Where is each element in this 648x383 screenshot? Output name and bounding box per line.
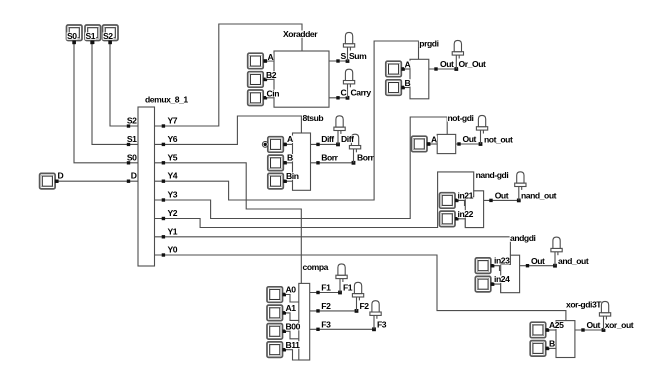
label nand_out <box>521 191 557 201</box>
wire Y3 to not-gdi <box>155 117 448 219</box>
svg-text:Y5: Y5 <box>168 152 178 162</box>
wire Bin to 8tsub <box>285 180 293 182</box>
switch S1 <box>85 25 101 44</box>
switch A1 <box>267 305 286 321</box>
label Carry <box>350 88 371 98</box>
node Sum <box>346 59 350 63</box>
svg-text:Y6: Y6 <box>168 134 178 144</box>
label Y7 <box>167 116 178 126</box>
label Sum <box>349 51 367 61</box>
wire Out to xor_out <box>575 329 604 331</box>
switch in24 <box>475 276 494 292</box>
wire A to prgdi <box>403 68 410 70</box>
pin F3 <box>316 328 319 331</box>
svg-text:A25: A25 <box>549 320 564 330</box>
label S0 <box>67 31 78 41</box>
wire Y7 to Xoradder <box>155 24 303 126</box>
pin in21 <box>455 199 458 202</box>
label S2 <box>103 31 114 41</box>
LED xor_out <box>599 301 610 330</box>
label F1 pin <box>321 283 331 293</box>
svg-text:Out: Out <box>531 256 545 266</box>
pin demux Y3 <box>162 198 165 201</box>
pin S0 <box>72 41 75 44</box>
svg-text:Out: Out <box>463 134 477 144</box>
label F2 node <box>359 301 369 311</box>
svg-text:A: A <box>287 134 293 144</box>
pin in24 <box>491 282 494 285</box>
svg-text:demux_8_1: demux_8_1 <box>145 95 188 105</box>
switch A (Xoradder) <box>248 53 267 68</box>
svg-text:Y1: Y1 <box>168 226 178 236</box>
svg-text:Or_Out: Or_Out <box>459 59 486 69</box>
wire Borr output <box>311 162 354 164</box>
switch B (8tsub) <box>268 155 287 171</box>
pin Bin 8tsub <box>283 180 286 183</box>
probe marker on A (8tsub) <box>262 142 268 148</box>
pin B00 <box>283 330 286 333</box>
wire in22 to nand-gdi <box>457 219 466 228</box>
label demux S1 <box>126 134 137 144</box>
label D switch <box>57 171 64 181</box>
svg-text:and_out: and_out <box>558 256 589 266</box>
switch D <box>40 173 59 189</box>
label Out prgdi <box>440 59 454 69</box>
switch Bin (8tsub) <box>268 173 287 189</box>
pin A1 <box>283 311 286 314</box>
node Borr <box>352 161 356 165</box>
label C <box>340 88 347 98</box>
wire Out to Or_Out <box>429 68 457 70</box>
wire S2 to demux <box>110 43 138 127</box>
label compa <box>302 262 329 272</box>
LED not_out <box>476 115 487 144</box>
pin demux Y1 <box>162 235 165 238</box>
switch A (8tsub) <box>268 137 287 153</box>
wire D to demux <box>57 180 139 182</box>
svg-text:D: D <box>58 171 64 181</box>
svg-text:F2: F2 <box>321 301 331 311</box>
label A0 <box>285 285 296 295</box>
label A 8tsub <box>287 134 294 144</box>
svg-text:F3: F3 <box>377 319 387 329</box>
label demux S2 <box>126 116 137 126</box>
label Y6 <box>167 134 178 144</box>
label Borr pin <box>321 152 339 162</box>
switch S0 <box>67 25 83 44</box>
switch A (prgdi) <box>386 61 405 76</box>
wire S output <box>329 60 348 62</box>
wire in21 to nand-gdi <box>457 200 466 205</box>
pin B2 Xoradder <box>264 78 267 81</box>
wire S0 to demux <box>74 43 138 163</box>
pin A not-gdi <box>427 142 430 145</box>
label B 8tsub <box>287 153 294 163</box>
svg-text:nand-gdi: nand-gdi <box>476 170 509 180</box>
svg-text:Y3: Y3 <box>168 190 178 200</box>
wire A to 8tsub <box>285 143 293 145</box>
label demux_8_1 <box>145 95 189 105</box>
pin A Xoradder <box>264 59 267 62</box>
svg-text:A0: A0 <box>286 285 297 295</box>
pin C <box>336 96 339 99</box>
label F1 node <box>343 283 353 293</box>
svg-text:S2: S2 <box>103 31 113 41</box>
svg-text:xor-gdi3T: xor-gdi3T <box>566 299 602 309</box>
LED F1 <box>336 264 347 293</box>
wire Y5 to compa <box>155 163 302 284</box>
label A not-gdi <box>431 134 438 144</box>
wire Diff output <box>311 143 339 145</box>
label Out nand <box>494 191 508 201</box>
pin S1 <box>90 41 93 44</box>
node not_out <box>479 142 483 146</box>
label S <box>340 51 347 61</box>
svg-text:A1: A1 <box>286 303 297 313</box>
wire A25 to xor-gdi3T <box>547 329 556 331</box>
svg-text:B2: B2 <box>266 70 277 80</box>
LED F3 <box>370 301 381 330</box>
svg-text:not_out: not_out <box>484 134 513 144</box>
switch in22 <box>440 211 459 227</box>
svg-text:xor_out: xor_out <box>605 320 634 330</box>
pin demux Y5 <box>162 161 165 164</box>
switch Cin (Xoradder) <box>248 90 267 106</box>
pin B prgdi <box>401 86 404 89</box>
compa block U9 <box>299 283 310 360</box>
nand-gdi block U6 <box>465 191 483 228</box>
svg-text:Y4: Y4 <box>168 171 178 181</box>
pin A25 <box>546 328 549 331</box>
wire B to prgdi <box>403 87 410 89</box>
svg-text:S0: S0 <box>67 31 77 41</box>
label nand-gdi <box>475 170 508 180</box>
label Out xor <box>586 320 600 330</box>
svg-text:S0: S0 <box>127 152 137 162</box>
LED Sum <box>343 32 354 61</box>
label A Xoradder <box>267 52 274 62</box>
label andgdi <box>510 233 536 243</box>
label Or_Out <box>458 59 486 69</box>
wire B2 to Xoradder <box>265 78 274 80</box>
pin Out xor <box>581 328 584 331</box>
pin demux Y0 <box>162 253 165 256</box>
label B2 Xoradder <box>266 70 277 80</box>
svg-text:Y0: Y0 <box>168 245 178 255</box>
node F2 <box>355 309 359 313</box>
pin demux Y4 <box>162 180 165 183</box>
pin A0 <box>283 293 286 296</box>
label xor_out <box>604 320 633 330</box>
svg-text:in21: in21 <box>458 190 474 200</box>
svg-text:B00: B00 <box>286 322 301 332</box>
pin demux S2 <box>127 124 130 127</box>
wire Y6 to 8tsub <box>155 116 302 144</box>
label Diff node <box>341 134 355 144</box>
node Diff <box>336 143 340 147</box>
svg-text:S1: S1 <box>127 134 137 144</box>
wire Out to and_out <box>520 265 555 267</box>
label Cin Xoradder <box>266 88 279 98</box>
svg-text:Bin: Bin <box>286 171 299 181</box>
switch A (not-gdi) <box>412 136 431 152</box>
svg-text:Borr: Borr <box>321 152 338 162</box>
label F3 pin <box>321 319 331 329</box>
switch in23 <box>475 258 494 274</box>
LED and_out <box>551 237 562 266</box>
LED Borr <box>349 134 360 163</box>
node Or_Out <box>454 67 458 71</box>
LED Or_Out <box>452 40 463 69</box>
svg-text:B: B <box>549 339 555 349</box>
pin Cin Xoradder <box>264 96 267 99</box>
svg-text:Xoradder: Xoradder <box>283 29 318 39</box>
LED Carry <box>343 69 354 98</box>
pin Out andgdi <box>526 264 529 267</box>
switch B11 <box>267 342 286 358</box>
node and_out <box>553 264 557 268</box>
not-gdi block U5 <box>437 134 456 153</box>
label Diff pin <box>321 134 335 144</box>
svg-text:B11: B11 <box>286 340 301 350</box>
switch S2 <box>103 25 119 44</box>
svg-text:B: B <box>287 153 293 163</box>
svg-text:S1: S1 <box>86 31 96 41</box>
svg-text:in23: in23 <box>494 256 510 266</box>
svg-text:andgdi: andgdi <box>510 233 536 243</box>
svg-text:in22: in22 <box>458 209 474 219</box>
label A prgdi <box>404 59 411 69</box>
pin in23 <box>491 264 494 267</box>
prgdi block U4 <box>410 59 429 99</box>
svg-text:S2: S2 <box>127 116 137 126</box>
svg-text:Carry: Carry <box>351 88 372 98</box>
switch in21 <box>440 193 459 209</box>
wire A to not-gdi <box>429 143 438 145</box>
wire Out to nand_out <box>484 199 519 201</box>
node F3 <box>372 327 376 331</box>
label F2 pin <box>321 301 331 311</box>
label prgdi <box>419 38 439 48</box>
pin B xor <box>546 347 549 350</box>
svg-text:A: A <box>431 134 437 144</box>
label 8tsub <box>302 113 323 123</box>
pin Out not-gdi <box>457 142 460 145</box>
pin A 8tsub <box>283 143 286 146</box>
label B xor <box>549 339 556 349</box>
wire B00 to compa <box>284 331 299 339</box>
wire Y1 to andgdi <box>155 237 511 255</box>
wire A to Xoradder <box>265 60 274 62</box>
wire F1 output <box>310 292 340 294</box>
svg-text:Sum: Sum <box>349 51 367 61</box>
pin B11 <box>283 348 286 351</box>
demux_8_1 block U1 <box>138 107 155 266</box>
andgdi block U7 <box>501 255 520 293</box>
label F3 node <box>377 319 387 329</box>
switch B2 (Xoradder) <box>248 72 267 88</box>
svg-text:C: C <box>341 88 347 98</box>
pin D switch <box>55 180 58 183</box>
label and_out <box>558 256 589 266</box>
wire Y0 to xor-gdi3T <box>155 255 566 321</box>
label in22 <box>457 209 473 219</box>
svg-text:B: B <box>405 78 411 88</box>
wire C output <box>329 97 348 99</box>
wire B to 8tsub <box>285 162 293 164</box>
pin Borr <box>316 161 319 164</box>
wire Y2 to nand-gdi <box>155 172 474 228</box>
switch A25 <box>530 322 549 338</box>
label xor-gdi3T <box>566 299 603 309</box>
pin F1 <box>316 291 319 294</box>
LED nand_out <box>515 172 526 201</box>
LED Diff <box>334 116 345 145</box>
label A25 <box>549 320 564 330</box>
svg-text:Out: Out <box>587 320 601 330</box>
svg-text:in24: in24 <box>494 274 510 284</box>
pin S <box>336 59 339 62</box>
svg-text:A: A <box>405 59 411 69</box>
pin demux Y2 <box>162 217 165 220</box>
label not_out <box>484 134 513 144</box>
pin F2 <box>316 309 319 312</box>
label Y5 <box>167 152 178 162</box>
label not-gdi <box>447 113 473 123</box>
xor-gdi3T block U8 <box>556 321 575 358</box>
label demux D <box>130 171 137 181</box>
svg-text:prgdi: prgdi <box>419 38 438 48</box>
label Bin 8tsub <box>286 171 299 181</box>
svg-text:compa: compa <box>303 262 329 272</box>
node xor_out <box>602 328 606 332</box>
svg-text:F2: F2 <box>360 301 370 311</box>
wire F2 output <box>310 310 357 312</box>
wire Out to not_out <box>456 143 481 145</box>
pin B 8tsub <box>283 161 286 164</box>
pin demux Y6 <box>162 143 165 146</box>
wire S1 to demux <box>92 43 138 145</box>
svg-text:Borr: Borr <box>357 152 374 162</box>
wire in24 to andgdi <box>493 284 501 293</box>
label Out not-gdi <box>462 134 476 144</box>
Xoradder block U2 <box>274 51 329 107</box>
label Borr node <box>357 152 375 162</box>
svg-text:not-gdi: not-gdi <box>448 113 474 123</box>
svg-text:Diff: Diff <box>321 134 334 144</box>
label S1 <box>85 31 96 41</box>
wire F3 output <box>310 328 374 330</box>
svg-text:F3: F3 <box>321 319 331 329</box>
svg-text:A: A <box>268 52 274 62</box>
switch A0 <box>267 287 286 303</box>
svg-text:Y2: Y2 <box>168 208 178 218</box>
pin Diff <box>316 143 319 146</box>
label Y4 <box>167 171 178 181</box>
label Y2 <box>167 208 178 218</box>
pin S2 <box>108 41 111 44</box>
wire Cin to Xoradder <box>265 97 274 99</box>
pin Out nand <box>489 199 492 202</box>
wire B11 to compa <box>284 350 299 360</box>
LED F2 <box>352 282 363 311</box>
svg-text:F1: F1 <box>343 283 353 293</box>
label Y1 <box>167 226 178 236</box>
switch B00 <box>267 324 286 340</box>
switch B (prgdi) <box>386 80 405 96</box>
label Y0 <box>167 245 178 255</box>
svg-text:8tsub: 8tsub <box>303 113 324 123</box>
svg-text:S: S <box>341 51 347 61</box>
node nand_out <box>517 199 521 203</box>
label Y3 <box>167 190 178 200</box>
label Xoradder <box>283 29 319 39</box>
label in24 <box>494 274 510 284</box>
svg-text:Out: Out <box>440 59 454 69</box>
wire in23 to andgdi <box>493 266 501 271</box>
wire B to xor-gdi3T <box>547 347 556 349</box>
svg-text:Diff: Diff <box>341 134 354 144</box>
label in21 <box>457 190 473 200</box>
pin demux S1 <box>127 143 130 146</box>
switch B (xor-gdi3T) <box>530 341 549 357</box>
label B prgdi <box>404 78 411 88</box>
wire A0 to compa <box>284 295 299 303</box>
node Carry <box>346 96 350 100</box>
svg-text:Out: Out <box>495 191 509 201</box>
label B11 <box>285 340 300 350</box>
label demux S0 <box>126 152 137 162</box>
pin demux Y7 <box>162 124 165 127</box>
svg-text:F1: F1 <box>321 283 331 293</box>
pin A prgdi <box>401 67 404 70</box>
wire A1 to compa <box>284 313 299 321</box>
node F1 <box>338 291 342 295</box>
svg-text:nand_out: nand_out <box>521 191 557 201</box>
pin in22 <box>455 217 458 220</box>
label in23 <box>494 256 510 266</box>
pin demux D <box>127 180 130 183</box>
label Out andgdi <box>531 256 545 266</box>
wire Y4 to prgdi <box>155 41 419 200</box>
pin Out prgdi <box>434 67 437 70</box>
label B00 <box>285 322 300 332</box>
pin demux S0 <box>127 161 130 164</box>
8tsub block U3 <box>293 133 311 190</box>
svg-text:Y7: Y7 <box>168 116 178 126</box>
svg-text:Cin: Cin <box>267 88 280 98</box>
svg-text:D: D <box>131 171 137 181</box>
label A1 <box>285 303 296 313</box>
